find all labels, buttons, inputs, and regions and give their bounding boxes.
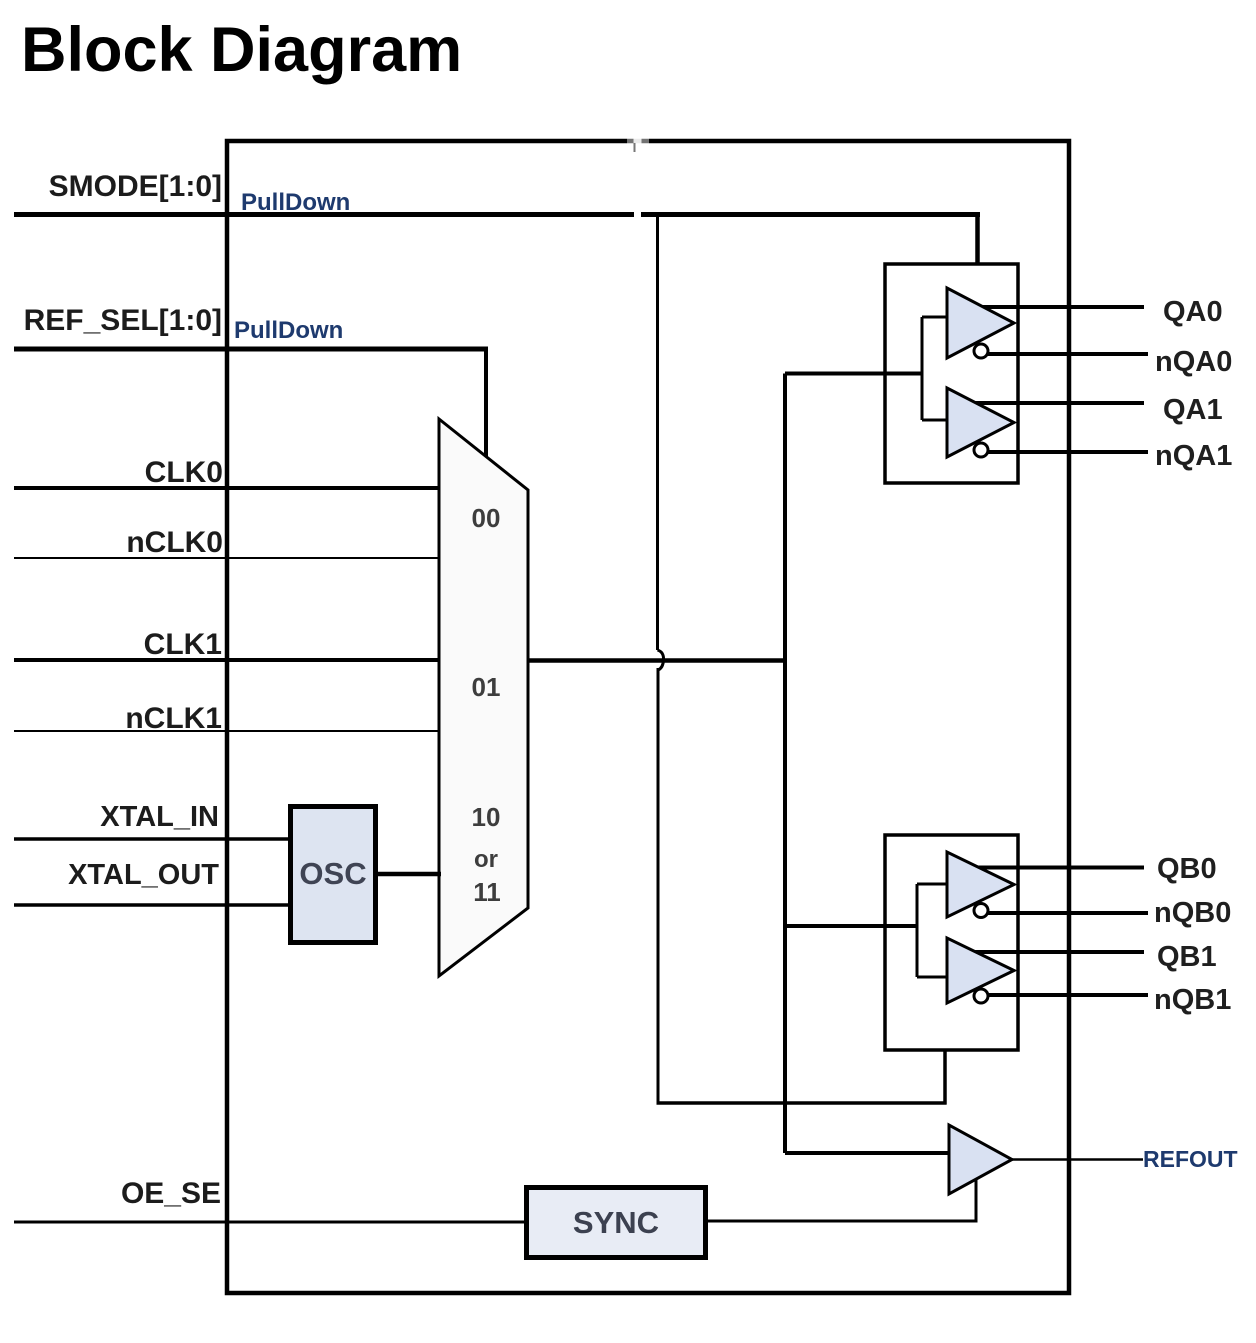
svg-text:SMODE[1:0]: SMODE[1:0] [49,170,222,203]
svg-text:CLK0: CLK0 [145,456,223,489]
svg-text:REFOUT: REFOUT [1143,1146,1238,1172]
svg-text:PullDown: PullDown [241,189,350,216]
svg-text:nQB0: nQB0 [1154,897,1231,929]
svg-text:QB0: QB0 [1157,853,1217,885]
svg-text:nQA0: nQA0 [1155,346,1232,378]
svg-text:or: or [474,846,498,873]
svg-text:XTAL_IN: XTAL_IN [100,801,219,833]
svg-text:Block Diagram: Block Diagram [21,15,462,85]
svg-text:nQA1: nQA1 [1155,440,1232,472]
svg-text:CLK1: CLK1 [144,628,222,661]
svg-text:QB1: QB1 [1157,941,1217,973]
svg-text:XTAL_OUT: XTAL_OUT [68,859,219,891]
svg-text:PullDown: PullDown [234,317,343,344]
svg-text:QA1: QA1 [1163,394,1223,426]
svg-text:REF_SEL[1:0]: REF_SEL[1:0] [24,304,222,337]
svg-text:01: 01 [472,672,501,702]
svg-text:QA0: QA0 [1163,296,1223,328]
svg-text:nCLK0: nCLK0 [126,526,223,559]
svg-text:00: 00 [472,503,501,533]
svg-text:nQB1: nQB1 [1154,984,1231,1016]
svg-text:11: 11 [473,877,501,907]
svg-text:OSC: OSC [299,856,366,891]
svg-text:OE_SE: OE_SE [121,1177,221,1210]
svg-text:SYNC: SYNC [573,1205,659,1240]
svg-text:10: 10 [472,802,501,832]
svg-text:nCLK1: nCLK1 [125,702,222,735]
